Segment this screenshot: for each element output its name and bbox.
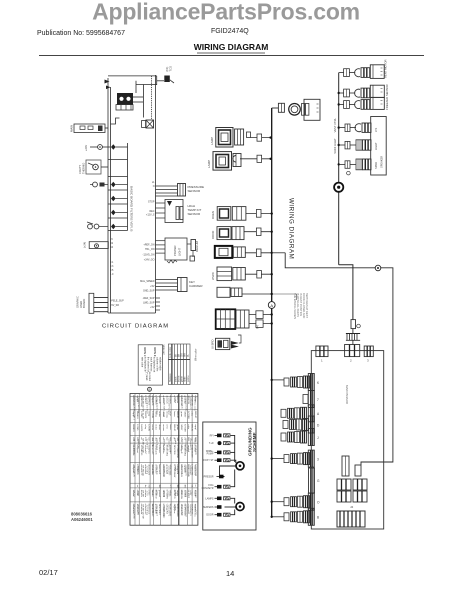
svg-text:mea: mea [158, 437, 160, 442]
svg-text:door switch: door switch [181, 505, 184, 517]
svg-text:sensor NT: sensor NT [168, 466, 171, 477]
svg-text:(*) mark: (*) mark [145, 372, 148, 381]
svg-text:motor: motor [158, 411, 161, 417]
svg-text:N L1 PE: N L1 PE [151, 439, 153, 448]
svg-text:120VAC 60: 120VAC 60 [163, 466, 166, 478]
svg-text:B: B [317, 516, 319, 520]
svg-text:3: 3 [317, 458, 319, 462]
svg-text:supply line volta: supply line volta [137, 398, 140, 414]
svg-text:re: re [194, 485, 197, 488]
svg-text:120VAC 60Hz suppl: 120VAC 60Hz suppl [163, 398, 166, 418]
svg-text:808036616: 808036616 [71, 512, 93, 517]
svg-text:+12V_S: +12V_S [146, 214, 155, 217]
svg-text:DEHUM: DEHUM [195, 240, 199, 252]
svg-text:SENSOR: SENSOR [188, 212, 202, 216]
svg-text:DOOR: DOOR [211, 231, 215, 239]
svg-text:POWER: POWER [173, 245, 177, 256]
svg-text:T+D: T+D [209, 442, 214, 445]
svg-text:MAL_SPEED: MAL_SPEED [140, 280, 155, 283]
svg-text:relay boa: relay boa [156, 466, 159, 476]
svg-text:+5: +5 [110, 238, 113, 241]
svg-text:THERMO: THERMO [82, 163, 86, 174]
svg-text:do: do [144, 485, 146, 488]
svg-text:volta: volta [191, 411, 194, 416]
svg-text:green: green [180, 375, 183, 382]
svg-text:reference V: reference V [189, 505, 192, 517]
svg-text:SURF LIGHT: SURF LIGHT [333, 138, 337, 154]
svg-text:N L1 PE: N L1 PE [151, 505, 153, 514]
svg-text:relay: relay [144, 424, 147, 430]
svg-text:CIRCUIT DIAGRAM: CIRCUIT DIAGRAM [102, 324, 169, 330]
svg-text:LAMPS: LAMPS [205, 497, 214, 500]
svg-text:TRL_ON: TRL_ON [145, 248, 155, 251]
svg-text:reference: reference [189, 466, 192, 476]
svg-text:GN: GN [181, 353, 183, 357]
svg-text:1 2 3 4 5 6: 1 2 3 4 5 6 [146, 439, 148, 450]
svg-text:D4: D4 [110, 246, 114, 249]
svg-text:as noted: as noted [148, 372, 151, 382]
svg-text:(E): (E) [255, 325, 259, 329]
svg-text:SENSOR: SENSOR [188, 189, 202, 193]
svg-text:0.5: 0.5 [110, 269, 114, 272]
svg-text:1 2 3 4 5 6 7 8 9: 1 2 3 4 5 6 7 8 9 [146, 398, 148, 415]
svg-text:harnessc1: harnessc1 [158, 464, 161, 475]
svg-text:CONVEYR: CONVEYR [202, 487, 214, 490]
svg-text:Publication No: 5995684767: Publication No: 5995684767 [37, 30, 125, 37]
svg-text:N L1 PE: N L1 PE [151, 398, 153, 407]
svg-text:sensorN: sensorN [158, 395, 161, 404]
svg-text:motor: motor [174, 491, 177, 497]
svg-text:refer: refer [189, 491, 192, 496]
svg-text:relay board outpu: relay board outpu [156, 398, 159, 416]
svg-text:motor: motor [155, 424, 158, 430]
svg-text:each harness: each harness [150, 357, 153, 372]
svg-text:PUMP: PUMP [207, 453, 214, 456]
svg-text:1 2 3 4 5 6: 1 2 3 4 5 6 [146, 505, 148, 516]
svg-text:120VA: 120VA [163, 491, 166, 498]
svg-text:1: 1 [321, 359, 323, 363]
svg-text:BK 14 CON: BK 14 CON [133, 466, 135, 478]
svg-text:+REF_ON: +REF_ON [143, 244, 154, 247]
svg-text:yellow: yellow [188, 375, 190, 382]
svg-text:WIRING DIAGRAM: WIRING DIAGRAM [194, 42, 269, 52]
svg-text:STOP: STOP [148, 201, 155, 204]
svg-text:motor: motor [174, 466, 177, 472]
svg-text:relay board: relay board [156, 505, 159, 517]
svg-text:harne: harne [173, 411, 176, 417]
svg-text:Code color: Code color [169, 347, 172, 358]
svg-text:harne: harne [169, 424, 172, 430]
svg-text:supplyli: supplyli [187, 445, 189, 453]
svg-text:measu: measu [162, 424, 164, 431]
svg-text:wire color: wire color [141, 357, 144, 367]
svg-text:Line mark: Line mark [163, 344, 166, 355]
svg-text:120VAC 60Hz: 120VAC 60Hz [163, 439, 166, 453]
svg-text:2: 2 [350, 359, 352, 363]
svg-text:harness conn: harness conn [194, 439, 197, 453]
svg-text:doors: doors [158, 424, 161, 430]
svg-text:VENT CTRL: VENT CTRL [333, 117, 337, 132]
svg-text:BK14C: BK14C [194, 411, 196, 418]
svg-text:MAIN: MAIN [70, 125, 74, 132]
svg-text:3456789: 3456789 [187, 395, 189, 404]
svg-text:groun: groun [176, 424, 179, 430]
svg-text:CARRIER: CARRIER [189, 284, 203, 288]
svg-text:BK 14 CONNE: BK 14 CONNE [133, 505, 135, 520]
svg-text:FGID2474Q: FGID2474Q [211, 28, 249, 35]
svg-text:-12V/5_ON: -12V/5_ON [143, 254, 155, 257]
svg-text:relative table: relative table [159, 357, 162, 371]
svg-text:RFI: RFI [210, 434, 214, 437]
svg-text:FOXY ST: FOXY ST [203, 459, 214, 462]
svg-text:WWW: WWW [211, 272, 215, 280]
svg-text:harness con: harness con [194, 505, 197, 518]
svg-text:D: D [317, 424, 320, 428]
svg-text:NTCBR: NTCBR [187, 411, 189, 419]
svg-text:sensor NTC: sensor NTC [168, 505, 171, 517]
svg-text:D2: D2 [110, 242, 114, 245]
svg-text:SPEAKER: SPEAKER [379, 156, 383, 168]
svg-text:B: B [148, 388, 150, 392]
svg-text:PRESSR: PRESSR [204, 476, 214, 479]
svg-text:black: black [176, 376, 178, 382]
svg-text:J4: J4 [350, 505, 354, 509]
svg-text:door switch: door switch [181, 439, 184, 451]
svg-text:motor: motor [174, 398, 177, 404]
svg-text:is displayed in: is displayed in [144, 357, 147, 373]
svg-text:LIGHT: LIGHT [178, 247, 182, 256]
svg-text:O: O [317, 501, 320, 505]
svg-text:BK14C: BK14C [191, 424, 193, 431]
svg-text:sensor NTC input: sensor NTC input [168, 398, 171, 415]
svg-text:3: 3 [367, 359, 369, 363]
svg-text:120VA: 120VA [147, 424, 150, 431]
svg-text:345678912: 345678912 [158, 504, 160, 516]
svg-text:senso: senso [168, 491, 170, 498]
svg-text:34567: 34567 [180, 424, 182, 431]
svg-text:OVEN: OVEN [211, 211, 215, 219]
svg-text:UI BRD: UI BRD [211, 340, 215, 349]
svg-text:+5V_SR: +5V_SR [110, 304, 119, 307]
svg-text:motor: motor [174, 439, 177, 445]
svg-text:senso: senso [151, 424, 153, 431]
svg-text:relay board: relay board [156, 439, 159, 451]
svg-text:door: door [181, 491, 184, 496]
svg-text:NOTE 1:: NOTE 1: [143, 348, 146, 358]
svg-text:BK BR GN WH: BK BR GN WH [142, 439, 144, 454]
svg-text:TCO: TCO [168, 66, 172, 71]
svg-text:NL1PE2: NL1PE2 [187, 490, 189, 499]
svg-text:BK14C: BK14C [173, 424, 175, 431]
svg-text:measu: measu [166, 411, 168, 418]
svg-text:suppl: suppl [194, 424, 196, 430]
svg-text:SWITCHES AT REST: SWITCHES AT REST [305, 293, 309, 318]
svg-text:NL1PE: NL1PE [140, 424, 142, 431]
svg-text:LAMP: LAMP [210, 137, 214, 145]
svg-text:Harness: Harness [169, 373, 172, 382]
svg-text:measure betw: measure betw [185, 439, 188, 453]
svg-text:BR: BR [178, 353, 180, 357]
svg-text:SCHEME: SCHEME [252, 432, 257, 452]
svg-text:MAIN BOARD: MAIN BOARD [345, 385, 349, 405]
svg-text:GND_SUP: GND_SUP [143, 289, 155, 292]
svg-text:DOOR: DOOR [206, 514, 213, 517]
svg-text:door swit: door swit [181, 466, 184, 475]
svg-text:A: A [270, 303, 273, 308]
svg-text:Wire color: Wire color [194, 348, 198, 361]
svg-text:WIRING DIAGRAM: WIRING DIAGRAM [288, 198, 295, 259]
svg-text:supply line: supply line [137, 505, 139, 516]
svg-text:FREEZER SENSOR: FREEZER SENSOR [385, 84, 389, 110]
svg-text:BASIC BOARD FILTERS VER. B: BASIC BOARD FILTERS VER. B [130, 186, 134, 232]
svg-text:BK BR GN: BK BR GN [142, 466, 144, 477]
svg-text:120VAC 60Hz: 120VAC 60Hz [163, 505, 166, 519]
svg-text:volta: volta [187, 424, 190, 429]
svg-text:white: white [183, 376, 186, 382]
svg-text:brown: brown [177, 375, 180, 382]
svg-text:+24V: +24V [84, 145, 88, 151]
svg-text:+PELE_SUP: +PELE_SUP [110, 300, 124, 303]
svg-text:measure betw.: measure betw. [185, 398, 188, 413]
svg-text:harne: harne [194, 491, 197, 497]
svg-text:harness c: harness c [194, 466, 197, 476]
svg-text:1.0: 1.0 [110, 273, 114, 276]
svg-text:supply li: supply li [137, 466, 139, 474]
svg-text:is displayed at: is displayed at [153, 357, 156, 372]
svg-text:column of the: column of the [156, 357, 159, 372]
svg-text:7: 7 [317, 398, 319, 402]
svg-text:J: J [317, 436, 319, 440]
svg-text:K: K [317, 381, 320, 385]
svg-text:BK 14 CONNEC: BK 14 CONNEC [133, 439, 135, 455]
svg-text:groun: groun [180, 411, 183, 417]
svg-text:door switch: door switch [181, 398, 184, 410]
svg-text:1 2 3 4 5: 1 2 3 4 5 [146, 466, 148, 475]
svg-text:measure bet: measure bet [185, 505, 188, 518]
svg-text:+5V: +5V [150, 306, 155, 309]
svg-text:0.3: 0.3 [110, 265, 114, 268]
svg-text:1 2 3: 1 2 3 [146, 491, 148, 497]
svg-text:measu: measu [185, 491, 187, 498]
svg-text:LAMP: LAMP [207, 160, 211, 168]
svg-text:WH: WH [184, 353, 186, 357]
svg-text:harness conn: harness conn [194, 398, 197, 412]
svg-text:BK 14 CONNECTOR J: BK 14 CONNECTOR J [133, 398, 135, 420]
svg-text:SPKR: SPKR [374, 162, 378, 169]
svg-text:NTCBRG: NTCBRG [166, 490, 168, 500]
svg-text:referenc: referenc [158, 445, 161, 454]
svg-text:VENT MOTOR: VENT MOTOR [384, 59, 388, 78]
svg-text:-REF_SUP: -REF_SUP [143, 297, 155, 300]
svg-text:reference V: reference V [189, 398, 192, 410]
svg-text:BK BR GN WH YL OR: BK BR GN WH YL OR [142, 398, 144, 420]
svg-text:BKBRGNWH: BKBRGNWH [187, 464, 189, 477]
svg-text:120VA: 120VA [151, 411, 154, 418]
svg-text:+5V: +5V [150, 285, 155, 288]
svg-text:A06246001: A06246001 [71, 517, 93, 522]
svg-text:sensor NTC i: sensor NTC i [168, 439, 171, 452]
svg-text:N L1 PE: N L1 PE [151, 466, 153, 475]
svg-text:34567891: 34567891 [173, 445, 175, 456]
svg-text:measure b: measure b [185, 466, 188, 477]
svg-text:NTCBRGNW: NTCBRGNW [176, 445, 178, 459]
svg-text:L1: L1 [152, 181, 155, 184]
svg-text:the channel of: the channel of [147, 357, 150, 372]
svg-text:0.1: 0.1 [110, 261, 114, 264]
svg-text:G: G [317, 479, 320, 483]
svg-text:A: A [317, 412, 320, 416]
svg-text:(+24): (+24) [83, 242, 87, 248]
svg-text:motor: motor [174, 505, 177, 511]
svg-text:refer: refer [166, 424, 169, 429]
svg-text:+24V_GO: +24V_GO [144, 259, 155, 262]
svg-text:14: 14 [226, 569, 234, 578]
svg-text:LT1: LT1 [374, 127, 378, 132]
svg-text:N L1: N L1 [151, 491, 153, 496]
svg-text:HEATERS: HEATERS [202, 506, 214, 509]
svg-text:NTCBR: NTCBR [184, 424, 186, 432]
svg-text:NOTE 2:: NOTE 2: [153, 348, 156, 358]
svg-text:BK BR GN WH: BK BR GN WH [142, 505, 144, 520]
svg-text:34567: 34567 [184, 411, 186, 418]
svg-text:BOARD: BOARD [82, 299, 86, 308]
svg-text:supply line: supply line [137, 439, 139, 450]
svg-text:LWD_SUP: LWD_SUP [143, 301, 155, 304]
svg-text:BK 14: BK 14 [133, 491, 135, 498]
svg-text:12345: 12345 [136, 424, 138, 431]
svg-text:BK: BK [176, 353, 178, 357]
svg-text:BK14CONJ: BK14CONJ [166, 445, 168, 456]
svg-text:02/17: 02/17 [39, 568, 58, 577]
svg-text:LIGHT: LIGHT [374, 142, 378, 150]
svg-text:BK14C: BK14C [176, 411, 178, 418]
svg-text:N: N [153, 185, 155, 188]
svg-text:CAVITY: CAVITY [78, 165, 82, 174]
svg-text:AppliancePartsPros.com: AppliancePartsPros.com [92, 0, 360, 25]
svg-text:BK BR: BK BR [142, 491, 144, 498]
svg-text:BKBRG: BKBRG [132, 424, 134, 432]
svg-text:REC: REC [149, 210, 154, 213]
svg-text:ground: ground [158, 490, 161, 498]
svg-text:reference V: reference V [189, 439, 192, 451]
svg-text:suppl: suppl [137, 491, 139, 497]
svg-text:se: se [136, 485, 138, 488]
